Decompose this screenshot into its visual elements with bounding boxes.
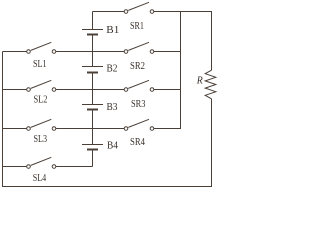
svg-text:SL1: SL1 <box>33 59 47 70</box>
switch SR3 <box>124 80 154 91</box>
wire bottom <box>3 186 213 188</box>
wire SR2 to right bus <box>154 51 181 53</box>
battery B3 <box>82 105 103 110</box>
svg-text:SL4: SL4 <box>33 173 47 184</box>
wire top from battery column to SR1 <box>93 11 125 13</box>
battery B2 <box>82 67 103 73</box>
switch SL1 <box>27 42 56 53</box>
wire SL3 to SR4 <box>56 128 124 130</box>
wire SL2 to SR3 <box>56 89 124 91</box>
switch SL4 <box>27 157 56 168</box>
wire left bus <box>2 52 4 188</box>
wire right border resistor bottom to bottom wire <box>211 99 213 187</box>
wire B3 bottom to B4 top <box>92 110 94 145</box>
switch SL2 <box>27 80 56 91</box>
svg-text:SR2: SR2 <box>130 61 145 72</box>
switch SR1 <box>124 2 154 13</box>
svg-text:B2: B2 <box>107 64 118 75</box>
svg-text:SR3: SR3 <box>131 99 146 110</box>
wire right bus SR outputs <box>180 12 182 129</box>
switch SL3 <box>27 119 56 130</box>
battery B4 <box>82 145 103 150</box>
wire right border top lead to resistor <box>211 12 213 71</box>
svg-text:SL3: SL3 <box>34 134 48 145</box>
wire row4 left border to SL3 <box>3 128 27 130</box>
svg-text:B4: B4 <box>107 141 118 152</box>
resistor R <box>205 70 216 99</box>
switch SR4 <box>124 119 154 130</box>
wire B1 bottom to B2 top <box>92 35 94 67</box>
svg-text:R: R <box>196 76 203 87</box>
battery B1 <box>82 30 103 35</box>
wire B4 bottom to row5 <box>92 150 94 167</box>
wire SR3 to right bus <box>154 89 181 91</box>
wire SR4 to right bus <box>154 128 181 130</box>
svg-text:B3: B3 <box>107 102 118 113</box>
wire row2 left border to SL1 <box>3 51 27 53</box>
svg-text:SR4: SR4 <box>130 137 145 148</box>
wire SR1 to top-right corner <box>154 11 212 13</box>
wire B2 bottom to B3 top <box>92 73 94 105</box>
wire row3 left border to SL2 <box>3 89 27 91</box>
switch SR2 <box>124 42 154 53</box>
svg-text:SR1: SR1 <box>130 21 144 32</box>
svg-text:SL2: SL2 <box>34 95 48 106</box>
wire SL4 to battery column <box>56 166 93 168</box>
wire SL1 to SR2 <box>56 51 124 53</box>
wire row5 left border to SL4 <box>3 166 27 168</box>
battery column lead B1 top <box>92 12 94 30</box>
svg-text:B1: B1 <box>106 25 119 36</box>
